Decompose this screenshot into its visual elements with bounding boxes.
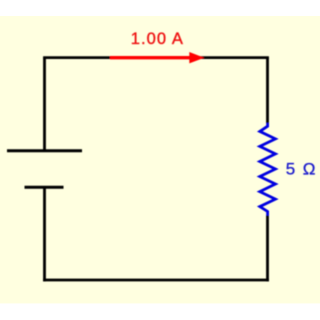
svg-text:5 Ω: 5 Ω <box>286 159 317 178</box>
svg-text:1.00 A: 1.00 A <box>131 30 184 48</box>
